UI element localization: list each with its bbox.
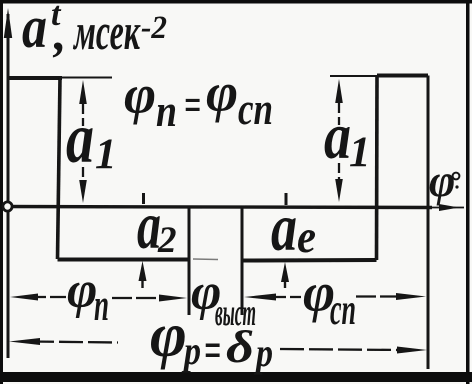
wire: left pulse top line <box>8 76 62 80</box>
svg-text:1: 1 <box>95 131 117 178</box>
svg-text:=: = <box>184 79 201 130</box>
svg-text:a: a <box>324 100 351 173</box>
svg-text:φ: φ <box>206 62 238 123</box>
dim phi_sp (bottom right span) <box>244 293 426 301</box>
svg-text:1: 1 <box>349 129 371 176</box>
wire: right pulse rising edge <box>375 76 379 261</box>
svg-text:сп: сп <box>330 285 356 334</box>
wire: dwell right vertical <box>241 207 244 315</box>
svg-text:р: р <box>181 328 201 373</box>
svg-text:2: 2 <box>157 220 177 261</box>
svg-text:=: = <box>204 322 221 378</box>
border frame right <box>466 0 470 384</box>
svg-text:a: a <box>22 0 47 60</box>
border frame bottom <box>0 372 472 382</box>
svg-text:п: п <box>94 279 109 330</box>
dim phi_p (bottom left span) <box>10 294 187 302</box>
y-axis <box>4 8 12 358</box>
svg-text:сп: сп <box>238 83 273 134</box>
wire: left a1 extension line <box>62 77 112 79</box>
wire: right a1 extension line <box>330 75 377 77</box>
svg-text:е: е <box>297 211 316 263</box>
svg-text:a: a <box>66 98 94 178</box>
dim a1 left <box>79 80 87 203</box>
border frame top <box>0 0 472 4</box>
svg-text:-2: -2 <box>141 10 167 46</box>
svg-text:φ: φ <box>124 64 156 125</box>
svg-text:φ: φ <box>150 300 187 370</box>
dim phi_r (bottom-most span) <box>9 338 427 354</box>
wire: right pulse top line <box>377 74 428 78</box>
wire: right negative bottom line <box>242 258 377 263</box>
svg-text:φ: φ <box>429 156 455 206</box>
svg-text:п: п <box>156 85 177 136</box>
wire: right pulse falling edge and dim extension <box>427 76 430 370</box>
origin circle <box>3 202 12 211</box>
svg-text:мсек: мсек <box>73 4 141 61</box>
svg-text:δ: δ <box>226 321 254 372</box>
dim a2 left <box>139 193 147 288</box>
wire: left negative bottom line <box>58 258 190 262</box>
dim a1 right <box>335 79 343 202</box>
svg-text:a: a <box>271 189 297 265</box>
wire: dwell left vertical <box>188 207 191 315</box>
dim a2 right <box>281 193 289 288</box>
svg-text:φ: φ <box>67 262 97 319</box>
svg-text:,: , <box>52 5 67 61</box>
wire: left pulse falling edge <box>58 78 61 259</box>
svg-text:р: р <box>253 330 273 375</box>
border frame left <box>0 0 3 384</box>
x-axis <box>3 204 464 211</box>
wire: faint dash in dwell gap <box>193 258 218 261</box>
